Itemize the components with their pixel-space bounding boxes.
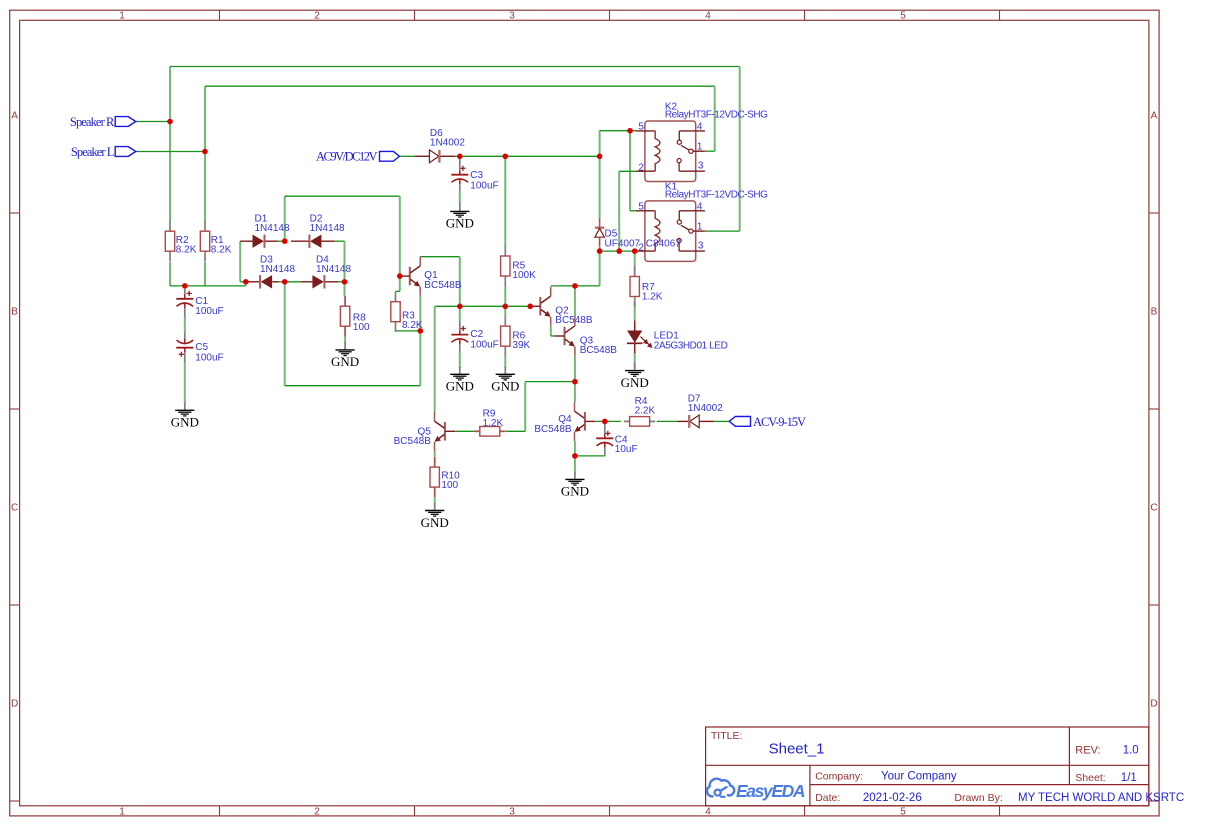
diode D6 [415, 128, 466, 163]
wire supply down to D5 [599, 156, 601, 218]
wire Speaker L riser to rail 2 [204, 86, 206, 151]
svg-text:4: 4 [697, 122, 703, 133]
svg-text:BC548B: BC548B [424, 280, 462, 291]
resistor R4 [624, 396, 656, 426]
wire bridge bottom gap right [338, 281, 345, 283]
relay K1 package label C84067 [646, 238, 681, 249]
svg-text:2: 2 [638, 162, 644, 173]
wire C5 bottom to gnd [184, 363, 186, 404]
svg-text:4: 4 [705, 806, 711, 817]
wire bridge right vertical [344, 241, 346, 282]
net port ACV-9-15V [729, 415, 806, 429]
wire gnd node to C4 bottom [575, 455, 605, 457]
wire R1 bottom [204, 262, 206, 286]
svg-text:GND: GND [561, 484, 589, 499]
svg-text:5: 5 [638, 202, 644, 213]
svg-text:BC548B: BC548B [555, 315, 593, 326]
svg-text:1: 1 [697, 142, 703, 153]
svg-text:C84067: C84067 [646, 238, 681, 249]
capacitor C3 [451, 166, 498, 192]
svg-text:3: 3 [698, 241, 704, 252]
wire coil return row [600, 250, 636, 252]
wire Speaker R riser to top rail [169, 67, 171, 122]
svg-text:ACV-9-15V: ACV-9-15V [753, 415, 806, 429]
svg-text:39K: 39K [512, 340, 530, 351]
svg-text:1N4148: 1N4148 [255, 223, 290, 234]
wire top rail 1 [170, 66, 740, 68]
svg-text:3: 3 [509, 806, 515, 817]
svg-text:1.0: 1.0 [1123, 744, 1139, 756]
title block frame [706, 727, 1149, 806]
svg-text:GND: GND [446, 216, 474, 231]
ground [491, 367, 519, 394]
svg-text:D: D [1150, 699, 1157, 710]
ground [446, 367, 474, 394]
capacitor C3 leads [459, 156, 461, 204]
svg-text:1N4148: 1N4148 [310, 223, 345, 234]
svg-text:2: 2 [314, 11, 320, 22]
svg-text:BC548B: BC548B [394, 436, 432, 447]
svg-text:4: 4 [705, 11, 711, 22]
wire drop to K1 pin5 [629, 131, 631, 211]
svg-text:1.2K: 1.2K [642, 292, 663, 303]
svg-text:RelayHT3F-12VDC-SHG: RelayHT3F-12VDC-SHG [665, 190, 768, 201]
wire R6 top [504, 306, 506, 316]
wire Q4 collector link [574, 382, 576, 402]
diode D7 [678, 394, 724, 428]
svg-text:MY TECH WORLD AND KSRTC: MY TECH WORLD AND KSRTC [1018, 792, 1184, 804]
wire port to D6 [399, 155, 414, 157]
wire Q5 base to R9 [455, 430, 474, 432]
wire K2 pin2 drop [619, 171, 636, 251]
wire rail 2 drop to K2 pin1 [714, 86, 716, 151]
svg-text:1N4002: 1N4002 [688, 403, 723, 414]
svg-text:2A5G3HD01 LED: 2A5G3HD01 LED [654, 340, 728, 351]
wire K2 pin1 stub [705, 150, 715, 152]
relay K1 [636, 182, 768, 262]
net port Speaker L [71, 145, 136, 159]
wire Speaker L port to column [136, 151, 205, 153]
transistor Q5 [394, 412, 455, 451]
wire R7 top lead [634, 251, 636, 276]
wire Speaker R down to R2 [169, 122, 171, 222]
svg-text:Your Company: Your Company [881, 770, 957, 782]
wire supply riser to relays [599, 131, 601, 157]
resistor R6 [501, 316, 531, 356]
svg-text:1: 1 [119, 11, 125, 22]
capacitor C4 leads [604, 421, 606, 456]
ground [561, 472, 589, 499]
wire C2 bottom to gnd [459, 306, 461, 368]
LED1 [627, 321, 728, 354]
svg-text:2: 2 [314, 806, 320, 817]
svg-text:GND: GND [331, 354, 359, 369]
svg-text:5: 5 [900, 806, 906, 817]
svg-text:2.2K: 2.2K [635, 406, 656, 417]
wire Speaker R port to column [136, 121, 170, 123]
wire C4 node to R4 [605, 420, 621, 422]
svg-text:100uF: 100uF [195, 306, 223, 317]
junction dots [167, 119, 637, 459]
svg-text:4: 4 [697, 202, 703, 213]
wire bridge output to R8 [344, 282, 346, 296]
svg-text:Speaker L: Speaker L [71, 145, 115, 159]
svg-text:GND: GND [621, 375, 649, 390]
net port Speaker R [70, 115, 136, 129]
resistor R1 [200, 221, 231, 261]
svg-text:Drawn By:: Drawn By: [954, 792, 1002, 804]
wire R5 bottom [504, 286, 506, 307]
relay K2 [636, 102, 768, 182]
resistor R3 [391, 292, 423, 332]
wire R9 feedback [506, 382, 575, 432]
wire Q4 emitter to gnd node [574, 441, 576, 456]
EasyEDA logo [707, 779, 805, 801]
wire D7 to port [714, 420, 729, 422]
svg-text:100K: 100K [512, 270, 536, 281]
wire R6 bottom to gnd [504, 356, 506, 368]
wire D6 to C3 node [455, 155, 460, 157]
wire Q5 collector riser [434, 306, 436, 411]
wire Speaker L down to R1 [204, 152, 206, 222]
capacitor C1 [176, 291, 223, 317]
ground [421, 503, 449, 530]
frame row letters right [1150, 111, 1157, 710]
capacitor C2 leads [459, 321, 461, 352]
frame column ticks bottom [220, 806, 1000, 816]
wire bridge bottom to emitter rail [285, 282, 421, 386]
wire Q5 emitter to R10 [434, 451, 436, 457]
wire top rail 2 [205, 85, 715, 87]
frame row ticks left [10, 213, 20, 801]
resistor R2 [165, 221, 196, 261]
svg-text:EasyEDA: EasyEDA [736, 781, 806, 801]
svg-text:1: 1 [119, 806, 125, 817]
wire C1 inter-cap link [184, 317, 186, 332]
capacitor C2 [451, 326, 498, 351]
svg-text:A: A [11, 111, 18, 122]
svg-text:C: C [11, 503, 18, 514]
svg-text:100uF: 100uF [470, 180, 498, 191]
wire gnd node down [574, 456, 576, 473]
svg-text:2: 2 [638, 242, 644, 253]
wire D5 to coil row [599, 247, 601, 251]
wire bridge top gap left [278, 240, 285, 242]
svg-text:REV:: REV: [1075, 744, 1100, 756]
svg-text:Sheet_1: Sheet_1 [769, 740, 825, 757]
wire R2 bottom [169, 262, 171, 286]
wire K1 pin1 stub [705, 230, 740, 232]
wire R7 bottom to LED [634, 302, 636, 321]
wire K1 pin5 stub [630, 210, 636, 212]
wire R10 to gnd [434, 497, 436, 503]
wire LED to gnd [634, 353, 636, 368]
svg-text:100: 100 [353, 322, 370, 333]
wire R3 bottom link [396, 330, 421, 332]
svg-text:8.2K: 8.2K [176, 244, 197, 255]
resistor R5 [501, 246, 536, 286]
svg-text:1N4148: 1N4148 [260, 264, 295, 275]
svg-text:3: 3 [509, 11, 515, 22]
wire Q4 base to C4 node [595, 420, 605, 422]
capacitor C1/C5 leads [184, 289, 186, 363]
ground [621, 363, 649, 390]
wire jog into bridge [245, 282, 247, 286]
svg-text:1N4148: 1N4148 [316, 264, 351, 275]
svg-text:2021-02-26: 2021-02-26 [863, 792, 922, 804]
wire top rail 1 drop to K1 pin1 [739, 67, 741, 232]
wire Q3 collector riser [574, 286, 576, 317]
wire supply line [460, 155, 600, 157]
wire bridge bottom gap left [279, 281, 285, 283]
ground [171, 403, 199, 430]
ground [446, 204, 474, 231]
diode D4 [301, 254, 352, 288]
svg-text:100uF: 100uF [470, 340, 498, 351]
wire R5 top riser [504, 156, 506, 246]
transistor Q4 [534, 402, 595, 441]
wire bridge left vertical [240, 241, 246, 282]
wire Q1 collector top [420, 257, 460, 307]
svg-text:100: 100 [441, 480, 458, 491]
frame column ticks top [220, 10, 1000, 20]
svg-text:B: B [11, 307, 18, 318]
svg-text:100uF: 100uF [195, 352, 223, 363]
title block texts [711, 730, 1184, 804]
svg-text:Speaker R: Speaker R [70, 115, 115, 129]
wire bridge top gap right [335, 240, 345, 242]
svg-text:GND: GND [491, 379, 519, 394]
svg-text:BC548B: BC548B [580, 345, 618, 356]
wire bridge bottom gap mid [285, 281, 301, 283]
svg-text:AC9V/DC12V: AC9V/DC12V [316, 149, 378, 163]
diode D3 [246, 254, 295, 288]
diode D2 [291, 213, 345, 248]
svg-text:5: 5 [900, 11, 906, 22]
resistor R8 [340, 296, 370, 336]
wire supply top to K2 pin5 [600, 130, 636, 132]
wire R3 top link [396, 276, 400, 291]
svg-text:C: C [1150, 503, 1157, 514]
svg-text:A: A [1151, 111, 1158, 122]
wire R4 to D7 [657, 420, 678, 422]
svg-text:Date:: Date: [815, 792, 840, 804]
svg-text:RelayHT3F-12VDC-SHG: RelayHT3F-12VDC-SHG [665, 110, 768, 121]
transistor Q3 [554, 316, 617, 356]
resistor R9 [474, 409, 505, 437]
diode D1 [240, 213, 290, 248]
svg-text:1: 1 [697, 222, 703, 233]
wire main rail y306 [435, 305, 531, 307]
svg-text:Company:: Company: [815, 770, 863, 782]
svg-text:8.2K: 8.2K [211, 244, 232, 255]
wire row down to driver [551, 251, 600, 286]
svg-text:D: D [11, 699, 18, 710]
frame column numbers bottom [119, 806, 906, 817]
svg-text:5: 5 [638, 122, 644, 133]
wire Q1 emitter down [419, 296, 421, 386]
ground [331, 342, 359, 369]
resistor R10 [430, 457, 460, 497]
resistor R7 [630, 266, 663, 306]
svg-text:10uF: 10uF [615, 444, 638, 455]
diode D5 [595, 218, 641, 250]
svg-text:GND: GND [171, 415, 199, 430]
wire Q2 emitter to Q3 base [551, 326, 554, 336]
wire sum node horizontal [170, 285, 246, 287]
capacitor C5 [176, 338, 223, 363]
net port AC9V/DC12V [316, 149, 399, 163]
wire C3 bottom lead [459, 191, 461, 203]
transistor Q1 [400, 257, 462, 296]
svg-text:1/1: 1/1 [1121, 772, 1137, 784]
svg-text:1.2K: 1.2K [483, 418, 504, 429]
svg-text:GND: GND [421, 515, 449, 530]
capacitor C4 [596, 431, 637, 455]
svg-text:TITLE:: TITLE: [711, 730, 743, 742]
wire Q3 emitter down [574, 356, 576, 382]
svg-text:B: B [1151, 307, 1158, 318]
svg-text:BC548B: BC548B [534, 424, 572, 435]
frame column numbers top [119, 11, 906, 22]
svg-text:GND: GND [446, 379, 474, 394]
svg-text:UF4007: UF4007 [605, 238, 641, 249]
svg-text:Sheet:: Sheet: [1075, 772, 1105, 784]
wire bridge top to Q1 base loop [285, 196, 400, 276]
svg-text:1N4002: 1N4002 [430, 138, 465, 149]
frame row ticks right [1149, 213, 1159, 801]
svg-text:3: 3 [698, 161, 704, 172]
frame row letters left [11, 111, 18, 710]
transistor Q2 [530, 287, 593, 326]
wire R8 bottom link [344, 336, 346, 343]
